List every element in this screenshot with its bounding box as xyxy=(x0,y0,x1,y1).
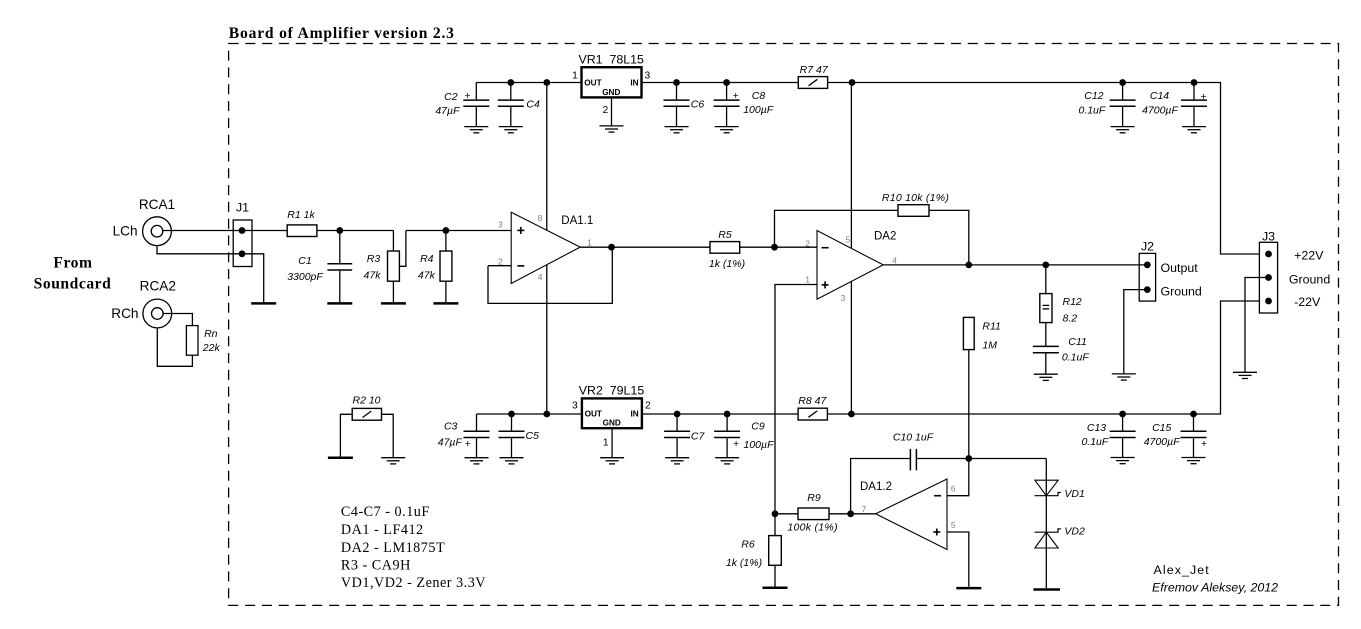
resistor R6 xyxy=(774,514,776,536)
connector RCA2 xyxy=(143,299,172,328)
svg-text:8: 8 xyxy=(538,214,543,223)
svg-text:R6: R6 xyxy=(741,538,755,550)
node C13 bottom rail xyxy=(1119,411,1126,418)
wire RCA2 signal to Rn top xyxy=(163,314,192,326)
svg-text:C1: C1 xyxy=(298,255,311,267)
svg-text:R5: R5 xyxy=(718,229,732,241)
svg-text:3300pF: 3300pF xyxy=(287,271,323,283)
ground bar under R4 xyxy=(433,302,458,305)
wire J2 pin 2 to ground xyxy=(1124,290,1148,374)
svg-text:100µF: 100µF xyxy=(744,439,775,451)
capacitor C2 xyxy=(475,83,477,100)
node output junction R12 xyxy=(1042,262,1049,269)
svg-text:R12: R12 xyxy=(1063,296,1082,308)
node J2 pin 2 xyxy=(1144,286,1151,293)
resistor R5 xyxy=(710,242,740,254)
svg-text:VD2: VD2 xyxy=(1064,525,1085,537)
svg-text:+: + xyxy=(733,438,739,450)
svg-text:R3: R3 xyxy=(367,253,381,265)
svg-text:4: 4 xyxy=(892,256,897,265)
capacitor C14 xyxy=(1193,83,1195,100)
op-amp DA2 plus input sign xyxy=(822,284,829,286)
svg-text:R2 10: R2 10 xyxy=(352,394,380,406)
op-amp DA1.2 plus input sign xyxy=(933,531,940,533)
svg-text:1: 1 xyxy=(805,275,810,284)
zener diode VD2 xyxy=(1035,529,1061,532)
svg-text:R9: R9 xyxy=(807,492,821,504)
node J3 pin 2 xyxy=(1265,274,1272,281)
op-amp DA2 xyxy=(817,231,883,300)
node R11/C10/pin6 junction xyxy=(965,455,972,462)
wire J1 pin 2 to ground xyxy=(242,254,264,302)
wire DA2 pin 5 supply xyxy=(850,83,852,249)
svg-text:1k (1%): 1k (1%) xyxy=(709,258,745,270)
wire C10 branch from output xyxy=(851,459,910,514)
svg-text:0.1uF: 0.1uF xyxy=(1062,352,1089,364)
svg-text:+: + xyxy=(464,90,470,102)
node A junction R1/C1 xyxy=(336,227,343,234)
svg-text:IN: IN xyxy=(630,79,638,88)
svg-text:R7 47: R7 47 xyxy=(800,64,829,76)
wire DA1.1 pin 4 supply xyxy=(546,265,548,414)
svg-text:+: + xyxy=(465,438,471,450)
node C14 top rail xyxy=(1191,79,1198,86)
node DA1.1 output junction xyxy=(608,244,615,251)
wire RCA1 shield to J1 pin 2 xyxy=(157,246,242,254)
svg-text:C14: C14 xyxy=(1150,90,1169,102)
svg-text:6: 6 xyxy=(951,485,956,494)
svg-text:Output: Output xyxy=(1161,261,1199,275)
node C7 bottom rail xyxy=(674,411,681,418)
svg-text:DA2 - LM1875T: DA2 - LM1875T xyxy=(341,540,445,556)
wire -15V bottom rail left xyxy=(477,413,582,415)
capacitor C3 xyxy=(476,414,478,431)
op-amp DA2 minus input sign xyxy=(822,247,829,249)
svg-text:Rn: Rn xyxy=(204,328,218,340)
capacitor C1 xyxy=(339,231,341,264)
ground bar under R6 xyxy=(763,587,788,590)
ground under C15 xyxy=(1182,458,1206,464)
node servo junction R9/R6/DA2 pin1 xyxy=(772,510,779,517)
svg-text:RCA2: RCA2 xyxy=(140,279,176,294)
op-amp DA1.1 xyxy=(511,212,580,283)
svg-text:Board of Amplifier version 2.3: Board of Amplifier version 2.3 xyxy=(229,25,455,42)
svg-text:C7: C7 xyxy=(691,431,706,443)
svg-text:VD1: VD1 xyxy=(1064,488,1084,500)
ground under C2 xyxy=(464,127,488,133)
resistor R2 xyxy=(352,408,381,420)
resistor R3 top lead xyxy=(392,231,394,252)
capacitor C4 xyxy=(510,83,512,100)
wire DA1.2 pin 6 stub xyxy=(947,459,969,496)
capacitor C9 xyxy=(726,414,728,431)
wire R9 to DA1.2 output xyxy=(829,513,876,515)
ground bar under DA1.2 pin 5 xyxy=(956,587,981,590)
ground under C8 xyxy=(715,127,739,133)
ground under VR1 xyxy=(600,126,624,132)
svg-text:1k (1%): 1k (1%) xyxy=(726,557,762,569)
wire J1 pin1 to R1 xyxy=(242,230,287,232)
svg-text:2: 2 xyxy=(805,240,810,249)
resistor R1 xyxy=(287,225,317,237)
svg-text:R8 47: R8 47 xyxy=(798,395,827,407)
wire wiper to DA1.1 pin 3 xyxy=(406,230,511,232)
resistor R8 xyxy=(798,408,827,420)
wire R10 to output node xyxy=(929,210,969,265)
node R7 output junction xyxy=(849,79,856,86)
svg-text:-22V: -22V xyxy=(1294,295,1321,309)
connector RCA1 xyxy=(143,217,172,246)
node C4 top rail xyxy=(507,79,514,86)
zener diode VD1 xyxy=(1035,480,1058,496)
svg-text:47µF: 47µF xyxy=(435,105,460,117)
ground under C4 xyxy=(499,127,523,133)
svg-text:2: 2 xyxy=(602,105,608,116)
svg-text:J3: J3 xyxy=(1262,230,1275,244)
op-amp DA1.1 plus input sign xyxy=(517,229,524,231)
ground under J2 branch xyxy=(1112,374,1136,380)
wire J3 pin 2 to ground xyxy=(1245,278,1269,373)
wire +22V top rail right xyxy=(828,83,1260,255)
svg-text:J2: J2 xyxy=(1141,239,1154,253)
ground bar under VD2 xyxy=(1033,588,1060,591)
op-amp DA1.1 minus input sign xyxy=(517,265,524,267)
svg-text:3: 3 xyxy=(498,221,503,230)
svg-text:+22V: +22V xyxy=(1294,249,1324,263)
capacitor C13 xyxy=(1122,414,1124,431)
wire VD branch vertical xyxy=(1045,459,1047,589)
node C12 top rail xyxy=(1119,79,1126,86)
node C15 bottom rail xyxy=(1190,411,1197,418)
ground bar at J1 xyxy=(251,302,276,305)
ground under C11 xyxy=(1034,374,1058,380)
svg-text:+: + xyxy=(1201,438,1207,450)
ground under C9 xyxy=(715,458,739,464)
wire R2 right lead to ground xyxy=(382,414,394,457)
ground under VR2 xyxy=(600,458,624,464)
svg-text:1: 1 xyxy=(572,70,578,81)
svg-text:3: 3 xyxy=(645,70,651,81)
wire R5 to DA2 pin 2 xyxy=(740,246,817,248)
capacitor C6 xyxy=(676,83,678,100)
op-amp DA1.2 minus input sign xyxy=(934,495,941,497)
svg-text:1: 1 xyxy=(603,437,609,448)
svg-text:J1: J1 xyxy=(236,201,249,215)
svg-text:RCh: RCh xyxy=(111,306,138,321)
node DA1.1 pin8 rail xyxy=(543,79,550,86)
wire DA1.1 feedback loop xyxy=(488,247,612,303)
svg-text:47µF: 47µF xyxy=(438,436,463,448)
svg-text:Ground: Ground xyxy=(1161,285,1202,299)
wire R3 wiper xyxy=(399,231,406,267)
wire R2 left lead to ground bar xyxy=(340,414,352,456)
svg-text:IN: IN xyxy=(631,409,639,418)
svg-text:C9: C9 xyxy=(751,421,765,433)
ground under C12 xyxy=(1111,127,1135,133)
svg-text:5: 5 xyxy=(846,236,851,245)
svg-text:3: 3 xyxy=(841,294,846,303)
resistor R12 xyxy=(1045,265,1047,294)
wire +15V top rail left xyxy=(476,82,581,84)
svg-text:7: 7 xyxy=(862,505,867,514)
svg-text:C5: C5 xyxy=(526,430,540,442)
capacitor C8 xyxy=(726,83,728,100)
svg-text:47k: 47k xyxy=(418,270,436,282)
svg-text:C6: C6 xyxy=(691,99,705,111)
svg-text:OUT: OUT xyxy=(585,409,602,418)
svg-text:C13: C13 xyxy=(1087,422,1106,434)
svg-text:R10 10k (1%): R10 10k (1%) xyxy=(882,192,949,204)
op-amp DA1.2 xyxy=(876,479,947,550)
svg-text:C15: C15 xyxy=(1152,422,1171,434)
svg-text:+: + xyxy=(733,90,739,102)
wire DA2 pin 1 stub down to servo node xyxy=(775,285,817,514)
svg-text:5: 5 xyxy=(951,521,956,530)
connector J3 xyxy=(1259,242,1277,313)
wire DA2 output to J2 xyxy=(883,264,1147,266)
node J1 pin 1 xyxy=(239,227,246,234)
wire servo node to R9 xyxy=(775,513,798,515)
node DA1.1 pin4 rail xyxy=(543,411,550,418)
svg-text:OUT: OUT xyxy=(584,79,601,88)
svg-text:C2: C2 xyxy=(444,91,458,103)
svg-text:C4: C4 xyxy=(526,99,540,111)
svg-text:DA1.2: DA1.2 xyxy=(860,481,892,493)
svg-text:DA1 - LF412: DA1 - LF412 xyxy=(341,522,424,538)
ground bar under R3 xyxy=(381,302,406,305)
svg-text:C11: C11 xyxy=(1068,336,1086,348)
connector J2 xyxy=(1139,253,1155,301)
svg-text:100µF: 100µF xyxy=(743,104,774,116)
node J3 pin 1 xyxy=(1265,251,1272,258)
ground under C14 xyxy=(1182,127,1206,133)
svg-text:C12: C12 xyxy=(1084,90,1103,102)
wire C10 to VD branch xyxy=(917,458,1046,460)
svg-text:R1 1k: R1 1k xyxy=(287,209,315,221)
ground under C5 xyxy=(500,458,524,464)
ground under C3 xyxy=(465,458,489,464)
svg-text:4700µF: 4700µF xyxy=(1144,436,1180,448)
svg-text:4: 4 xyxy=(538,273,543,282)
node C5 bottom rail xyxy=(508,411,515,418)
wire +15V top rail middle xyxy=(642,82,799,84)
voltage regulator VR1 78L15 xyxy=(582,67,642,97)
wire -22V bottom rail right xyxy=(827,301,1259,414)
node R5/DA2 pin2 junction xyxy=(771,244,778,251)
capacitor C10 xyxy=(909,449,911,470)
node C6 top rail xyxy=(673,79,680,86)
node C8 top rail xyxy=(723,79,730,86)
capacitor C15 xyxy=(1193,414,1195,431)
svg-text:LCh: LCh xyxy=(113,223,138,238)
node junction R4 xyxy=(443,227,450,234)
wire feedback to R10 xyxy=(775,210,899,247)
svg-text:0.1uF: 0.1uF xyxy=(1081,436,1108,448)
svg-text:C3: C3 xyxy=(444,420,458,432)
svg-text:GND: GND xyxy=(602,88,620,97)
svg-text:From: From xyxy=(53,255,92,272)
resistor R3 (trimmer CA9H) xyxy=(388,251,400,281)
wire DA1.1 pin 2 stub xyxy=(488,265,511,267)
node DA1.2 output junction C10 xyxy=(847,510,854,517)
resistor Rn xyxy=(186,326,198,356)
svg-text:47k: 47k xyxy=(364,270,382,282)
svg-text:+: + xyxy=(1200,91,1206,103)
node R8 output junction DA2 pin3 xyxy=(848,411,855,418)
ground under J3 branch xyxy=(1233,372,1257,378)
ground under C6 xyxy=(665,127,689,133)
wire VR2 pin 1 to ground xyxy=(611,428,613,458)
svg-text:2: 2 xyxy=(645,400,651,411)
svg-text:GND: GND xyxy=(603,418,621,427)
capacitor C11 xyxy=(1045,323,1047,346)
svg-text:22k: 22k xyxy=(202,342,221,354)
voltage regulator VR2 79L15 xyxy=(582,398,642,428)
wire R1 to node A xyxy=(317,230,394,232)
resistor R7 xyxy=(798,77,827,89)
wire -15V bottom rail middle xyxy=(642,413,798,415)
svg-text:4700µF: 4700µF xyxy=(1142,104,1178,116)
svg-text:C4-C7 - 0.1uF: C4-C7 - 0.1uF xyxy=(341,504,430,520)
svg-text:VR1 78L15: VR1 78L15 xyxy=(578,52,644,66)
wire VR1 pin 2 to ground xyxy=(611,97,613,126)
svg-text:100k (1%): 100k (1%) xyxy=(787,521,838,533)
svg-text:VR2 79L15: VR2 79L15 xyxy=(579,384,645,398)
wire DA2 pin 3 supply xyxy=(850,282,852,415)
board outline dashed border xyxy=(229,44,1339,606)
svg-text:8.2: 8.2 xyxy=(1063,312,1078,324)
capacitor C7 xyxy=(676,414,678,431)
ground bar under C1 xyxy=(327,302,352,305)
svg-text:Alex_Jet: Alex_Jet xyxy=(1154,563,1210,577)
svg-text:C10 1uF: C10 1uF xyxy=(893,432,934,444)
svg-text:VD1,VD2 - Zener 3.3V: VD1,VD2 - Zener 3.3V xyxy=(341,575,486,591)
resistor R4 xyxy=(445,231,447,252)
node J3 pin 3 xyxy=(1265,298,1272,305)
svg-text:RCA1: RCA1 xyxy=(139,197,175,212)
node J1 pin 2 xyxy=(239,250,246,257)
resistor R9 xyxy=(798,508,829,520)
svg-text:1M: 1M xyxy=(982,340,997,352)
svg-text:3: 3 xyxy=(572,400,578,411)
ground under C7 xyxy=(665,458,689,464)
wire DA1.1 output to R5 xyxy=(580,246,710,248)
node J2 pin 1 xyxy=(1144,262,1151,269)
wire R11 lower lead to servo line xyxy=(968,350,970,459)
capacitor C5 xyxy=(511,414,513,431)
svg-text:Ground: Ground xyxy=(1289,273,1330,287)
svg-text:R11: R11 xyxy=(982,321,1000,333)
node C9 bottom rail xyxy=(724,411,731,418)
wire DA1.2 pin 5 stub to ground xyxy=(947,532,969,587)
svg-text:R4: R4 xyxy=(420,253,434,265)
svg-text:Soundcard: Soundcard xyxy=(34,276,112,293)
svg-text:Efremov Aleksey, 2012: Efremov Aleksey, 2012 xyxy=(1152,580,1278,594)
svg-text:C8: C8 xyxy=(752,90,766,102)
node DA2 output junction R10/R11 xyxy=(965,262,972,269)
resistor R10 xyxy=(898,205,929,217)
wire RCA2 shield to Rn bottom xyxy=(157,328,192,366)
svg-text:DA1.1: DA1.1 xyxy=(561,215,593,227)
ground under C13 xyxy=(1111,458,1135,464)
svg-text:R3 - CA9H: R3 - CA9H xyxy=(341,557,411,573)
svg-text:2: 2 xyxy=(498,258,503,267)
ground under R2 right xyxy=(381,458,405,464)
wire RCA1 signal to J1 pin 1 xyxy=(163,230,242,232)
resistor R11 xyxy=(963,317,974,349)
capacitor C12 xyxy=(1122,83,1124,100)
wire DA1.1 pin 8 supply xyxy=(546,83,548,231)
svg-text:0.1uF: 0.1uF xyxy=(1078,104,1105,116)
svg-text:1: 1 xyxy=(587,239,592,248)
svg-text:DA2: DA2 xyxy=(874,230,896,242)
ground bar under R2 left xyxy=(328,456,353,459)
connector J1 xyxy=(233,220,252,267)
